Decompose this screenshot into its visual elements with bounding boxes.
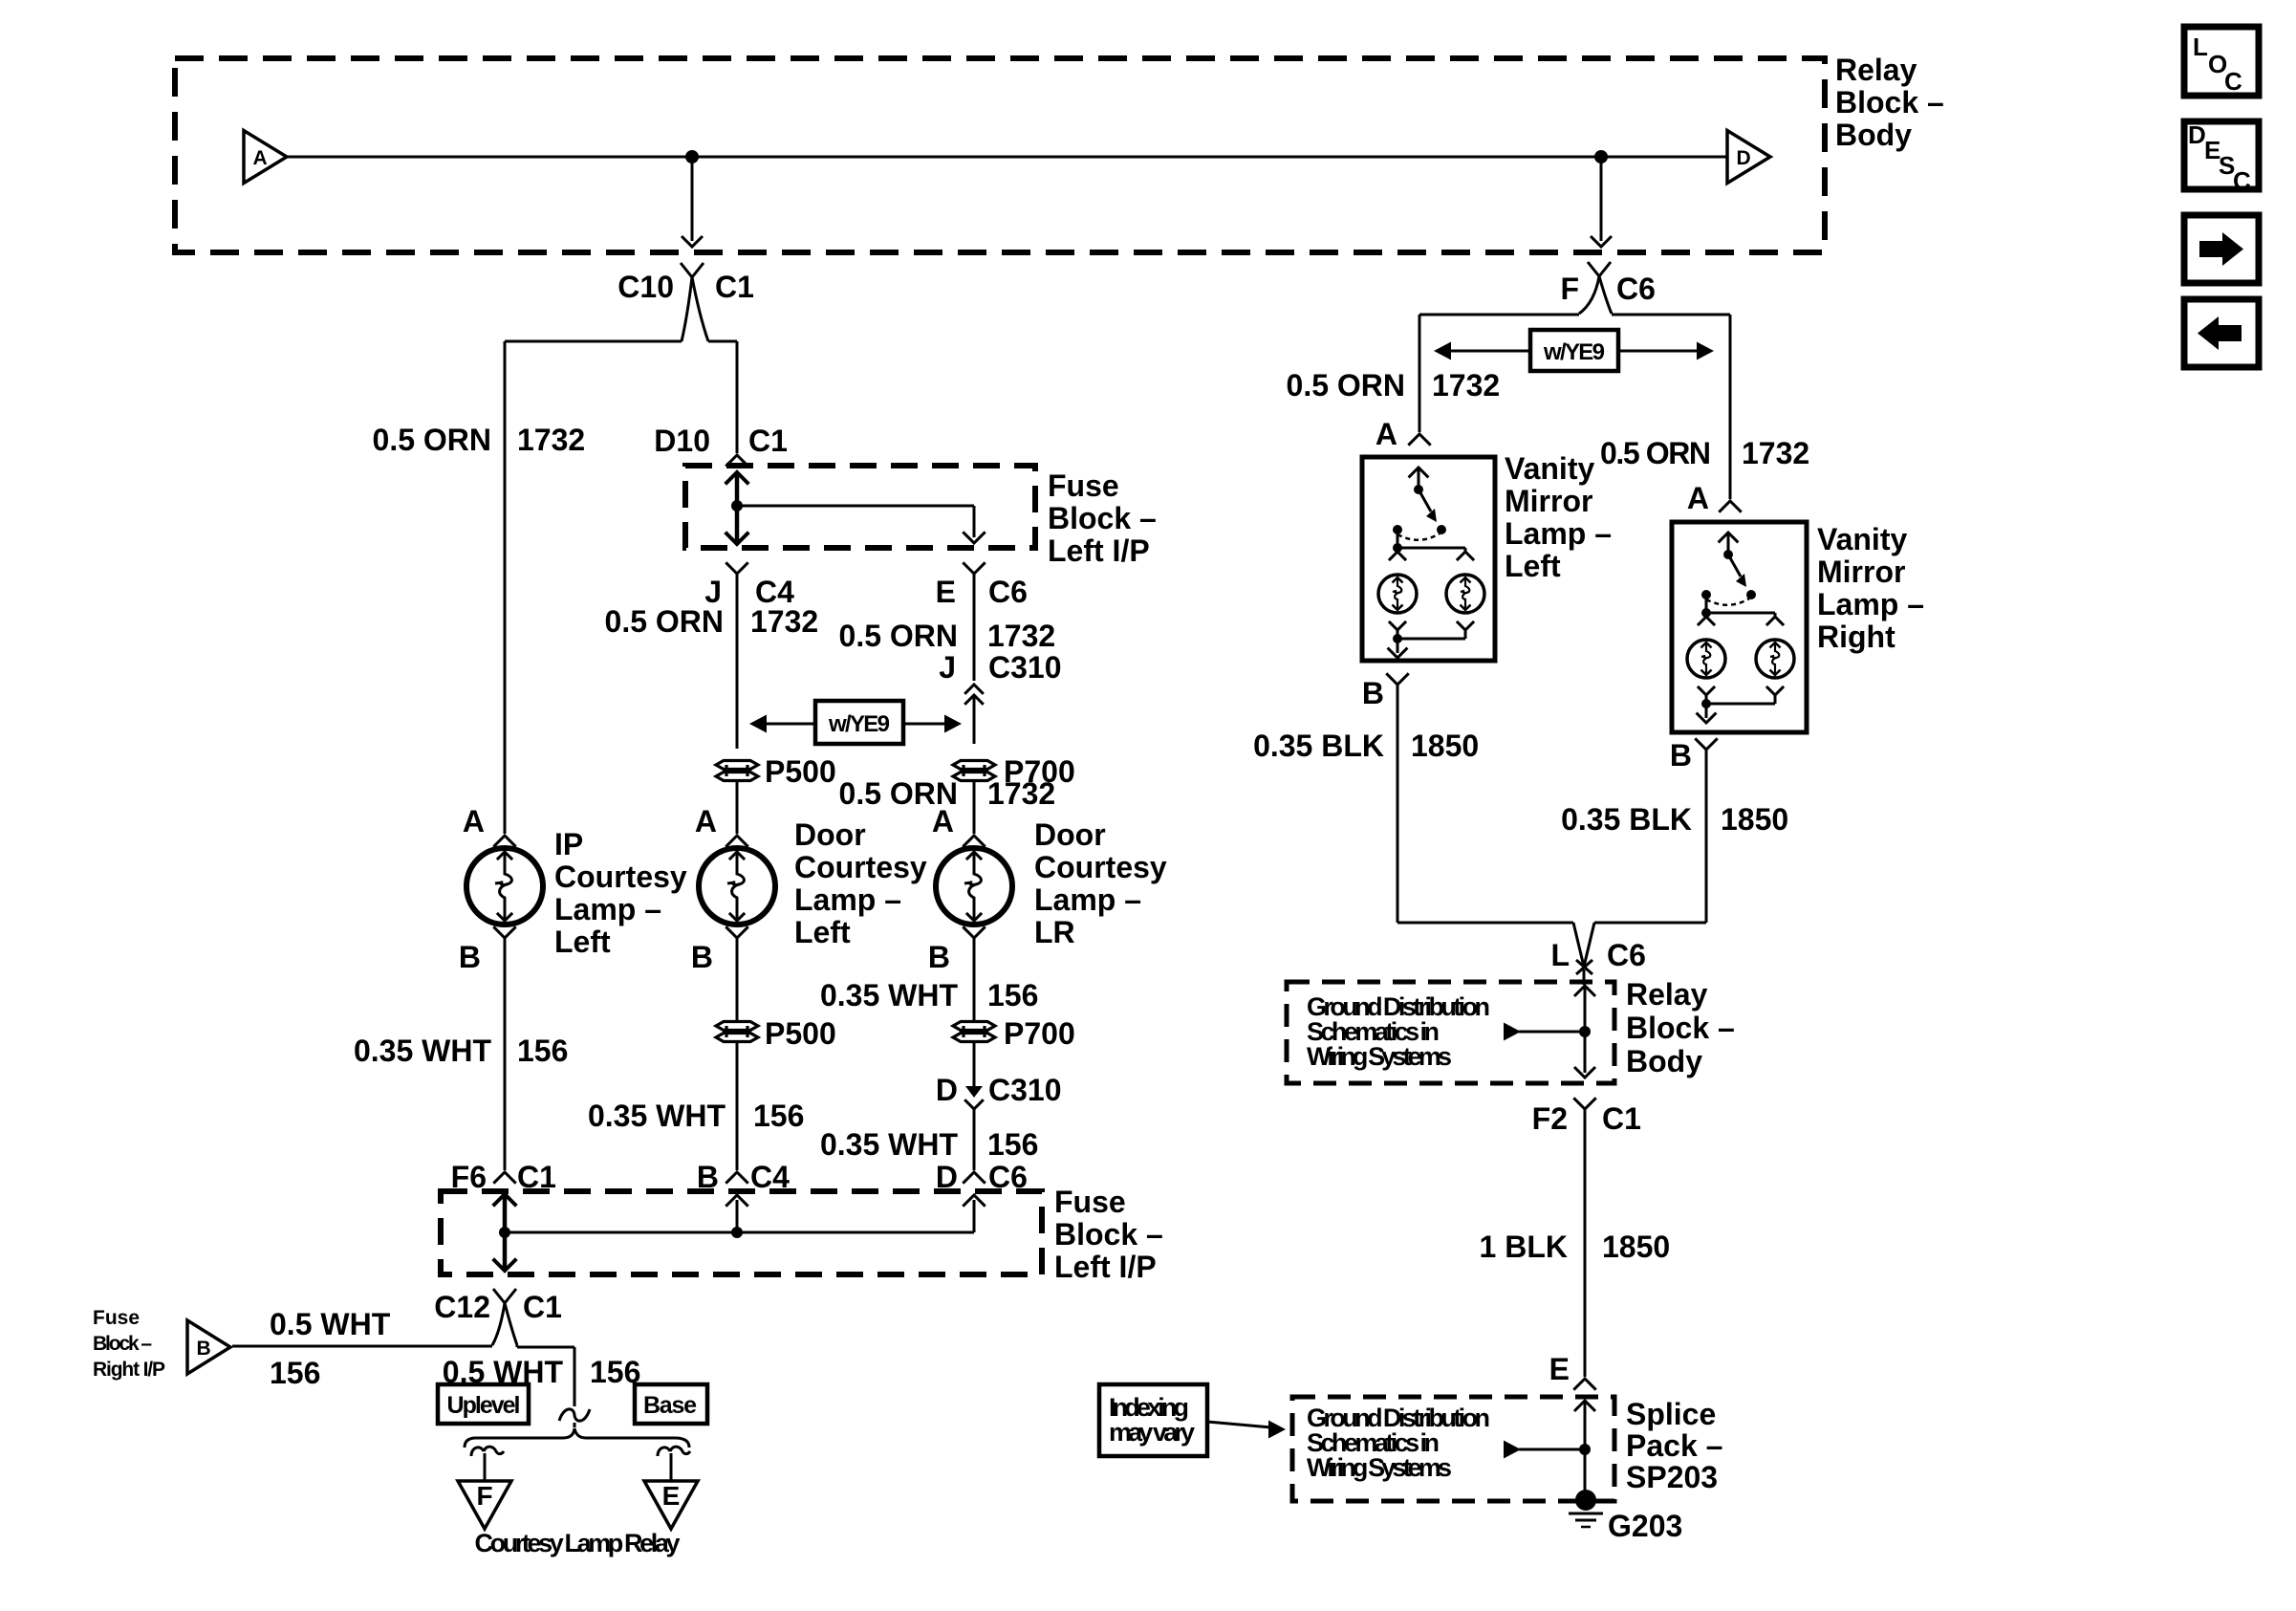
- svg-text:A: A: [463, 804, 485, 838]
- wire C310 to D/C6: [973, 1109, 976, 1170]
- relay coil pigtail E: [670, 1453, 673, 1481]
- svg-text:Base: Base: [643, 1392, 697, 1419]
- svg-text:1850: 1850: [1602, 1230, 1670, 1264]
- junction (splice pack): [1579, 1444, 1591, 1455]
- splice P500 (lower): [716, 1022, 758, 1031]
- svg-text:Lamp –: Lamp –: [794, 882, 901, 917]
- svg-text:F: F: [476, 1481, 492, 1511]
- bulb circuit vanity left: [1397, 530, 1399, 548]
- svg-text:J: J: [939, 650, 956, 685]
- wire bus A to D: [287, 156, 1727, 159]
- svg-text:Wiring Systems: Wiring Systems: [1307, 1453, 1452, 1482]
- svg-text:C10: C10: [617, 270, 674, 304]
- button LOC: [2184, 27, 2259, 96]
- svg-text:B: B: [1670, 738, 1692, 773]
- svg-text:Courtesy Lamp Relay: Courtesy Lamp Relay: [475, 1529, 681, 1557]
- pointer arrow from indexing note: [1207, 1422, 1271, 1427]
- svg-text:156: 156: [753, 1099, 804, 1133]
- svg-text:0.5 WHT: 0.5 WHT: [270, 1307, 391, 1341]
- svg-text:Block –: Block –: [1048, 501, 1157, 535]
- junction (lower fuse block middle): [731, 1227, 743, 1238]
- svg-text:L: L: [1550, 938, 1570, 972]
- svg-text:1732: 1732: [987, 619, 1055, 653]
- connector D10/C1 fork: [726, 455, 747, 467]
- bulb right of vanity left: [1446, 575, 1484, 613]
- svg-text:Lamp –: Lamp –: [1505, 516, 1612, 551]
- svg-text:P700: P700: [1004, 1016, 1075, 1051]
- svg-text:Block –: Block –: [1626, 1011, 1735, 1045]
- svg-text:1732: 1732: [1432, 368, 1500, 403]
- svg-text:Block –: Block –: [1835, 85, 1944, 120]
- svg-text:C: C: [2224, 67, 2242, 96]
- ground G203 symbol: [1575, 1490, 1596, 1511]
- vanity mirror lamp left box: [1362, 457, 1495, 661]
- svg-text:0.35 BLK: 0.35 BLK: [1253, 729, 1384, 763]
- svg-text:Courtesy: Courtesy: [554, 860, 687, 894]
- bulb circuit vanity right: [1705, 595, 1708, 613]
- junction (lower fuse block left): [499, 1227, 510, 1238]
- off-page connector triangle D: [1727, 131, 1770, 184]
- relay block body ground ref (dashed box): [1287, 982, 1614, 1083]
- svg-text:C6: C6: [988, 575, 1028, 609]
- svg-text:A: A: [253, 147, 268, 169]
- wire IP lamp B to F6: [504, 938, 507, 1170]
- svg-text:A: A: [1375, 417, 1397, 451]
- svg-text:Left I/P: Left I/P: [1054, 1250, 1157, 1284]
- junction inside fuse block: [731, 500, 743, 512]
- wire F2 to splice pack (1 BLK 1850): [1584, 1109, 1587, 1377]
- svg-text:Wiring Systems: Wiring Systems: [1307, 1042, 1452, 1071]
- splice pack SP203 (dashed box): [1292, 1397, 1614, 1501]
- svg-text:0.35 WHT: 0.35 WHT: [820, 978, 958, 1012]
- connector E/C6: [963, 562, 985, 574]
- internal bus arrow in fuse block: [735, 475, 740, 541]
- svg-text:Splice: Splice: [1626, 1397, 1716, 1431]
- wire J to P500: [736, 574, 739, 749]
- svg-text:Vanity: Vanity: [1817, 522, 1907, 556]
- off-page connector triangle A: [244, 131, 287, 184]
- svg-text:C4: C4: [755, 575, 794, 609]
- internal trunk wire: [505, 1231, 974, 1234]
- wire P500 lower to B/C4: [736, 1043, 739, 1170]
- bulb left of vanity left: [1378, 575, 1417, 613]
- wire P500 to lamp A: [736, 782, 739, 834]
- wire F/C6 right branch to vanity right: [1612, 314, 1730, 316]
- svg-text:Body: Body: [1835, 118, 1912, 152]
- switch in vanity left: [1418, 469, 1420, 490]
- connector C12/C1: [493, 1289, 516, 1303]
- svg-text:Pack –: Pack –: [1626, 1428, 1722, 1463]
- svg-text:C1: C1: [1602, 1101, 1641, 1136]
- svg-text:1732: 1732: [1742, 436, 1809, 470]
- svg-text:156: 156: [987, 1127, 1038, 1162]
- svg-text:D10: D10: [654, 424, 710, 458]
- svg-text:0.35 WHT: 0.35 WHT: [354, 1034, 491, 1068]
- svg-text:1732: 1732: [987, 776, 1055, 811]
- fuse block left IP (upper dashed box): [685, 466, 1035, 548]
- svg-text:Right: Right: [1817, 620, 1895, 654]
- arrow right from w/YE9: [903, 723, 945, 726]
- svg-text:Fuse: Fuse: [1054, 1185, 1126, 1219]
- splice P700 (lower): [953, 1022, 995, 1031]
- svg-text:B: B: [459, 940, 481, 974]
- svg-text:156: 156: [987, 978, 1038, 1012]
- svg-text:0.5 ORN: 0.5 ORN: [839, 619, 958, 653]
- svg-text:C1: C1: [715, 270, 754, 304]
- svg-text:w/YE9: w/YE9: [1543, 339, 1605, 365]
- internal riser middle: [736, 1200, 739, 1232]
- svg-text:D: D: [936, 1073, 958, 1107]
- button arrow right: [2184, 215, 2259, 283]
- internal bus arrow (lower fuse block): [503, 1197, 508, 1268]
- wire from C10/C1 right branch down to D10: [708, 340, 737, 343]
- svg-text:E: E: [936, 575, 956, 609]
- svg-text:may vary: may vary: [1109, 1418, 1195, 1447]
- svg-text:Fuse: Fuse: [93, 1307, 140, 1329]
- button DESC: [2184, 121, 2259, 189]
- svg-text:Mirror: Mirror: [1505, 484, 1592, 518]
- svg-text:Relay: Relay: [1626, 977, 1708, 1012]
- option box w/YE9 (right): [1530, 330, 1618, 371]
- svg-text:Mirror: Mirror: [1817, 555, 1905, 589]
- svg-text:F: F: [1560, 272, 1579, 306]
- svg-text:Lamp –: Lamp –: [554, 892, 661, 926]
- wire from fuse block B to C12: [232, 1345, 492, 1348]
- wire vanity left B to L/C6: [1397, 685, 1399, 923]
- internal ground wire (relay block): [1574, 986, 1595, 996]
- svg-text:0.5 ORN: 0.5 ORN: [373, 423, 491, 457]
- splice P500 (upper): [716, 761, 758, 770]
- svg-text:Vanity: Vanity: [1505, 451, 1594, 486]
- svg-text:1732: 1732: [517, 423, 585, 457]
- svg-text:Courtesy: Courtesy: [1034, 850, 1167, 884]
- svg-text:156: 156: [517, 1034, 568, 1068]
- svg-text:C1: C1: [523, 1290, 562, 1324]
- svg-text:0.35 WHT: 0.35 WHT: [820, 1127, 958, 1162]
- svg-text:Left: Left: [1505, 549, 1561, 583]
- svg-text:D: D: [1737, 147, 1751, 169]
- connector F/C6: [1588, 262, 1611, 276]
- svg-text:0.35 WHT: 0.35 WHT: [588, 1099, 726, 1133]
- svg-text:F2: F2: [1532, 1101, 1568, 1136]
- svg-text:C: C: [2233, 166, 2251, 195]
- wire break squiggle: [559, 1409, 590, 1421]
- vanity mirror lamp right box: [1672, 522, 1807, 732]
- svg-text:1732: 1732: [750, 604, 818, 639]
- svg-text:A: A: [695, 804, 717, 838]
- svg-text:C310: C310: [988, 650, 1062, 685]
- svg-text:Lamp –: Lamp –: [1817, 587, 1924, 621]
- svg-text:SP203: SP203: [1626, 1460, 1718, 1494]
- svg-text:LR: LR: [1034, 915, 1075, 949]
- svg-text:L: L: [2193, 33, 2208, 61]
- lamp door courtesy lamp left: [699, 848, 775, 925]
- svg-text:0.5 ORN: 0.5 ORN: [1600, 436, 1711, 470]
- brace for courtesy lamp relay: [465, 1428, 689, 1448]
- svg-text:C6: C6: [1607, 938, 1646, 972]
- wire P700 to lamp A: [973, 782, 976, 834]
- svg-text:0.35 BLK: 0.35 BLK: [1561, 802, 1692, 837]
- svg-text:A: A: [1687, 481, 1709, 515]
- wire C12 right branch down: [516, 1345, 519, 1347]
- svg-text:Lamp –: Lamp –: [1034, 882, 1141, 917]
- svg-text:C1: C1: [748, 424, 788, 458]
- fuse block left IP (lower dashed box): [441, 1191, 1042, 1274]
- svg-text:1 BLK: 1 BLK: [1480, 1230, 1568, 1264]
- wire door lamp left B to P500 lower: [736, 938, 739, 1020]
- note box Indexing may vary: [1099, 1384, 1207, 1456]
- wire drop to F/C6: [1600, 157, 1603, 241]
- wire from C10/C1 left branch to IP courtesy lamp: [505, 340, 682, 343]
- svg-text:B: B: [928, 940, 950, 974]
- svg-text:1850: 1850: [1721, 802, 1788, 837]
- svg-text:A: A: [932, 804, 954, 838]
- wire C310 to P700: [973, 695, 976, 744]
- internal wire to E terminal: [737, 505, 974, 508]
- svg-text:J: J: [704, 575, 722, 609]
- svg-text:Door: Door: [794, 817, 866, 852]
- svg-text:B: B: [197, 1338, 211, 1360]
- svg-text:G203: G203: [1608, 1509, 1682, 1543]
- svg-text:Right I/P: Right I/P: [93, 1359, 165, 1381]
- off-page connector triangle B: [187, 1320, 230, 1374]
- option box Uplevel: [438, 1384, 529, 1424]
- svg-text:1850: 1850: [1411, 729, 1479, 763]
- svg-text:Block –: Block –: [93, 1333, 152, 1355]
- arrow right from w/YE9 right: [1618, 350, 1698, 353]
- svg-text:Left I/P: Left I/P: [1048, 533, 1150, 568]
- svg-text:Left: Left: [554, 925, 611, 959]
- svg-text:Block –: Block –: [1054, 1217, 1163, 1252]
- option box Base: [635, 1384, 707, 1424]
- svg-text:C12: C12: [434, 1290, 490, 1324]
- junction node on bus (left drop): [685, 150, 699, 163]
- switch in vanity right: [1727, 534, 1730, 555]
- svg-text:P500: P500: [765, 1016, 836, 1051]
- bulb right of vanity right: [1756, 640, 1794, 678]
- svg-text:Relay: Relay: [1835, 53, 1917, 87]
- lamp door courtesy lamp LR: [936, 848, 1012, 925]
- svg-text:C310: C310: [988, 1073, 1062, 1107]
- svg-text:B: B: [691, 940, 713, 974]
- svg-text:B: B: [1362, 676, 1384, 710]
- splice P700 (upper): [953, 761, 995, 770]
- wire door lamp LR B to P700 lower: [973, 938, 976, 1020]
- junction (relay block ground): [1579, 1026, 1591, 1037]
- wire vanity right B to L/C6: [1705, 750, 1708, 923]
- wire F/C6 left branch to vanity left: [1419, 314, 1579, 316]
- relay terminal triangle E: [644, 1481, 698, 1529]
- svg-text:P500: P500: [765, 754, 836, 789]
- wire drop to C10: [691, 157, 694, 241]
- svg-text:156: 156: [270, 1356, 320, 1390]
- connector L/C6: [1573, 923, 1594, 967]
- wire P700 lower to D/C310: [973, 1043, 976, 1090]
- pointer arrow (relay block ground): [1519, 1031, 1585, 1034]
- svg-text:E: E: [1549, 1352, 1570, 1386]
- wire E/C6 to J/C310: [973, 574, 976, 681]
- svg-text:Door: Door: [1034, 817, 1106, 852]
- lamp IP courtesy lamp left: [466, 848, 543, 925]
- connector J/C4: [726, 562, 747, 574]
- svg-text:w/YE9: w/YE9: [828, 711, 890, 737]
- svg-text:E: E: [662, 1481, 681, 1511]
- connector C10/C1: [681, 263, 704, 277]
- bulb left of vanity right: [1687, 640, 1725, 678]
- wire L/C6 into relay block: [1583, 969, 1586, 985]
- internal wire splice pack: [1574, 1401, 1595, 1411]
- option box w/YE9 (middle): [815, 701, 903, 744]
- svg-text:Courtesy: Courtesy: [794, 850, 927, 884]
- svg-text:IP: IP: [554, 827, 583, 861]
- relay terminal triangle F: [458, 1481, 511, 1529]
- arrow left from w/YE9: [765, 723, 815, 726]
- relay coil pigtail F: [484, 1453, 487, 1481]
- internal riser right: [973, 1200, 976, 1232]
- svg-text:D: D: [2188, 120, 2206, 149]
- pointer arrow (splice pack): [1519, 1448, 1585, 1451]
- svg-text:Fuse: Fuse: [1048, 468, 1119, 503]
- svg-text:Uplevel: Uplevel: [447, 1392, 521, 1419]
- svg-text:0.5 ORN: 0.5 ORN: [605, 604, 724, 639]
- arrow left from w/YE9 right: [1449, 350, 1530, 353]
- svg-text:0.5 ORN: 0.5 ORN: [1287, 368, 1405, 403]
- svg-text:Left: Left: [794, 915, 851, 949]
- svg-text:C6: C6: [1616, 272, 1656, 306]
- svg-text:Body: Body: [1626, 1044, 1702, 1078]
- relay block body (top dashed box): [175, 58, 1825, 252]
- button arrow left: [2184, 299, 2259, 367]
- junction node on bus (right drop): [1594, 150, 1608, 163]
